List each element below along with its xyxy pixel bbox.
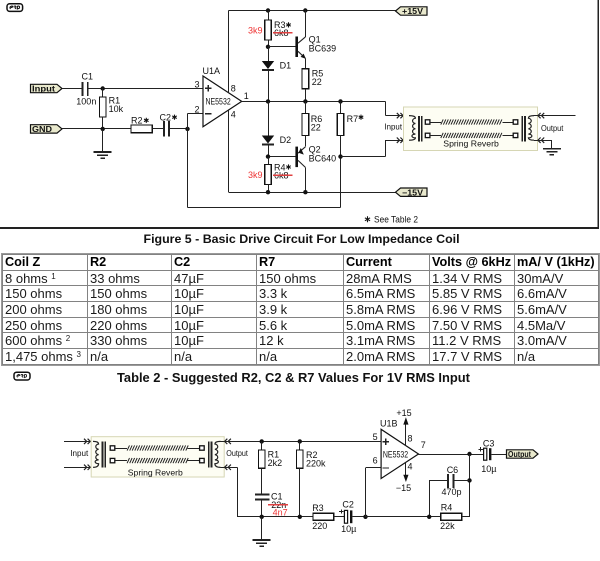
spring terminals left <box>425 120 430 124</box>
resistor R4 22k <box>441 513 462 520</box>
diode D2 <box>268 101 270 135</box>
node: C6 left leg <box>427 515 431 519</box>
node: R3/D1/Q1 base <box>266 45 270 49</box>
resistor R2 <box>131 125 152 133</box>
capacitor C2 10u electrolytic <box>344 510 347 523</box>
resistor R1 2k2 <box>261 441 263 450</box>
spring 1 <box>441 119 502 124</box>
caption figure 5 <box>144 232 460 246</box>
figure border right <box>597 0 599 228</box>
spring reverb tank box <box>404 107 538 151</box>
ground symbol <box>261 517 263 540</box>
wire input to C1 <box>62 88 82 90</box>
+15V tag <box>396 7 428 15</box>
transistor Q1 BC639 <box>295 37 298 58</box>
arrow into transformer <box>397 113 400 118</box>
tank output wire top <box>221 441 382 443</box>
see table note <box>365 216 370 222</box>
capacitor C3 10u electrolytic <box>484 448 487 460</box>
-15V tag <box>396 188 428 196</box>
tank output transformer core <box>208 442 210 468</box>
ground symbol <box>102 129 104 152</box>
tank input transformer core <box>102 442 104 468</box>
arrow into transformer <box>84 465 87 470</box>
capacitor C6 470p <box>429 480 447 482</box>
ground at tank output <box>543 148 561 150</box>
resistor R3 220 <box>313 513 334 520</box>
transistor Q2 BC640 <box>295 147 298 168</box>
resistor R7 <box>340 101 342 113</box>
svg-text:10µ: 10µ <box>341 524 356 534</box>
wire feedback down and right <box>187 129 189 208</box>
tank input transformer core <box>418 116 420 142</box>
spring 2 <box>127 458 188 463</box>
-15 supply arrow <box>405 462 407 475</box>
svg-text:Output: Output <box>508 450 531 459</box>
spring terminals right <box>188 448 200 450</box>
arrow out of transformer <box>542 113 545 118</box>
Input tag <box>31 84 63 92</box>
node: rail/R4 <box>266 190 270 194</box>
arrow out of transformer <box>228 439 231 444</box>
tank input transformer coil <box>93 441 99 467</box>
wire node up to pin2 <box>187 114 189 129</box>
tank input transformer coil <box>409 116 415 141</box>
svg-text:6: 6 <box>373 455 378 465</box>
wire tank output top <box>534 115 576 117</box>
svg-text:220: 220 <box>312 521 327 531</box>
tank output wire bottom <box>221 467 238 469</box>
wire C2 to node <box>170 128 188 130</box>
svg-text:2k2: 2k2 <box>268 458 283 468</box>
op-amp U1A <box>203 76 242 127</box>
+15V rail <box>228 10 396 12</box>
svg-text:220k: 220k <box>306 459 326 469</box>
input wire top <box>64 441 93 443</box>
node: C6 right <box>467 478 471 482</box>
node: input/R1 junction <box>101 86 105 90</box>
node: output/R7 <box>338 99 342 103</box>
node: rail/R3 <box>266 8 270 12</box>
feedback vertical wire <box>469 454 471 517</box>
node: R1 bottom / gnd <box>101 127 105 131</box>
node: R2 top <box>298 439 302 443</box>
wire to transformer input top <box>385 101 387 115</box>
arrow into transformer <box>84 439 87 444</box>
spring 1 <box>127 445 188 450</box>
svg-text:5: 5 <box>373 432 378 442</box>
node: rail/Q2 collector <box>303 190 307 194</box>
wire to transformer input bottom <box>341 156 386 158</box>
capacitor C1 <box>261 468 263 493</box>
svg-text:470p: 470p <box>442 487 462 497</box>
wire to pin 6 <box>365 468 367 517</box>
svg-text:U1B: U1B <box>380 418 398 428</box>
node: pin6 junction <box>363 515 367 519</box>
wire C1 to opamp pin3 <box>89 88 203 90</box>
output wire pin 7 <box>419 454 484 456</box>
tank output transformer coil <box>215 441 221 467</box>
arrow out of transformer <box>228 465 231 470</box>
svg-text:C3: C3 <box>483 438 495 448</box>
spring terminals right <box>502 122 513 124</box>
ESP logo 2 <box>13 371 53 385</box>
svg-text:Spring Reverb: Spring Reverb <box>128 467 183 477</box>
svg-text:−15: −15 <box>396 483 411 493</box>
node: R7 bottom / feedback <box>338 154 342 158</box>
resistor R6 22 <box>305 101 307 113</box>
spring reverb tank box <box>91 437 224 477</box>
+15 supply arrow <box>405 424 407 446</box>
wire tank output bottom to ground <box>534 140 552 142</box>
wire base Q1 <box>268 46 295 48</box>
svg-text:22k: 22k <box>440 521 455 531</box>
pin 8 wire to +15V rail <box>228 11 230 93</box>
spring 2 <box>441 133 502 138</box>
Output tag <box>507 450 539 458</box>
-15V rail <box>228 192 396 194</box>
node: output/diodes <box>266 99 270 103</box>
svg-text:C6: C6 <box>447 465 459 475</box>
node: output/R5-R6 <box>303 99 307 103</box>
arrow into transformer <box>397 138 400 143</box>
svg-text:R4: R4 <box>441 503 453 513</box>
resistor R5 22 <box>305 58 307 68</box>
arrow out of transformer <box>542 138 545 143</box>
spring terminals left <box>110 446 115 450</box>
svg-text:4: 4 <box>408 462 413 472</box>
op-amp U1B <box>381 429 418 478</box>
tank output transformer core <box>521 116 523 142</box>
node: rail/Q1 collector <box>303 8 307 12</box>
svg-text:R3: R3 <box>312 503 324 513</box>
wire R2 to C2 <box>152 128 163 130</box>
caption table 2 <box>117 370 470 385</box>
svg-text:4n7: 4n7 <box>273 508 288 518</box>
svg-text:C2: C2 <box>342 500 354 510</box>
node: R1 top <box>260 439 264 443</box>
figure border bottom <box>0 227 599 229</box>
capacitor C2 <box>163 121 165 137</box>
svg-text:Output: Output <box>226 448 248 458</box>
resistor R4 <box>268 157 270 165</box>
svg-text:10µ: 10µ <box>481 464 496 474</box>
node: R2 bottom <box>298 515 302 519</box>
input wire bottom <box>64 467 93 469</box>
node: C1 bottom / ground <box>260 515 264 519</box>
svg-text:7: 7 <box>421 440 426 450</box>
resistor R3 <box>268 11 270 21</box>
diode D1 <box>268 47 270 61</box>
node: output/feedback <box>467 452 471 456</box>
tank output transformer coil <box>528 116 534 141</box>
svg-text:NE5532: NE5532 <box>383 449 408 459</box>
ESP logo <box>7 4 23 12</box>
resistor R1 10k <box>102 89 104 98</box>
svg-text:8: 8 <box>408 434 413 444</box>
capacitor C1 <box>82 82 84 96</box>
resistor R2 220k <box>299 441 301 450</box>
node: C2 / feedback junction <box>185 127 189 131</box>
svg-text:+15: +15 <box>396 408 411 418</box>
GND tag <box>31 125 63 133</box>
wire GND to R2 <box>62 128 131 130</box>
node: D2/R4/Q2 base <box>266 154 270 158</box>
svg-text:Input: Input <box>70 448 89 458</box>
output line from pin 1 <box>242 101 386 103</box>
pin 4 wire to -15V rail <box>228 110 230 192</box>
